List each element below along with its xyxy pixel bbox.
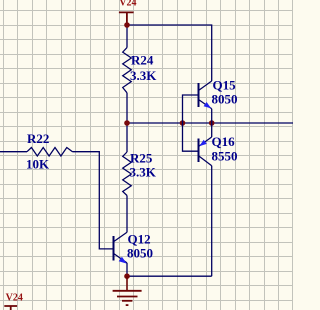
svg-text:V24: V24 bbox=[119, 0, 136, 9]
svg-text:Q12: Q12 bbox=[128, 231, 151, 246]
svg-text:Q16: Q16 bbox=[212, 134, 236, 149]
wire middle rail bbox=[127, 122, 293, 124]
wire R25 to Q12 collector bbox=[126, 196, 128, 233]
wire Q15 emitter down bbox=[211, 109, 213, 123]
svg-text:R24: R24 bbox=[131, 52, 154, 67]
junction top bbox=[124, 22, 130, 28]
wire Q16 emitter up bbox=[211, 123, 213, 137]
svg-text:V24: V24 bbox=[6, 293, 23, 304]
svg-text:10K: 10K bbox=[26, 156, 50, 171]
junction middle left bbox=[124, 120, 130, 126]
junction emitters bbox=[209, 120, 215, 126]
svg-text:8050: 8050 bbox=[212, 92, 238, 107]
power V24 bottom bbox=[4, 293, 23, 310]
junction base bus bbox=[180, 120, 186, 126]
wire R24 to R25 bbox=[126, 93, 128, 152]
resistor R25 bbox=[123, 150, 157, 195]
wire Q12 emitter to ground node bbox=[126, 263, 128, 276]
junction ground bbox=[124, 273, 130, 279]
power V24 top bbox=[119, 0, 137, 25]
transistor Q16 bbox=[199, 134, 238, 166]
wire V24 top to R24 and Q15 collector bbox=[127, 25, 212, 81]
svg-text:Q15: Q15 bbox=[213, 77, 237, 92]
svg-text:3.3K: 3.3K bbox=[130, 165, 157, 180]
svg-text:R25: R25 bbox=[130, 150, 153, 165]
wire R22 to Q12 base bbox=[73, 152, 114, 249]
ground bbox=[113, 276, 142, 305]
wire bottom rail bbox=[127, 275, 212, 277]
transistor Q15 bbox=[199, 77, 238, 109]
resistor R24 bbox=[123, 48, 158, 93]
svg-text:8050: 8050 bbox=[127, 245, 153, 260]
svg-text:R22: R22 bbox=[27, 131, 49, 146]
svg-text:3.3K: 3.3K bbox=[130, 68, 157, 83]
wire Q16 collector to bottom rail bbox=[211, 166, 213, 277]
transistor Q12 bbox=[114, 231, 154, 263]
svg-text:8550: 8550 bbox=[212, 148, 238, 163]
resistor R22 bbox=[0, 131, 73, 172]
wire base bus Q15 Q16 bbox=[183, 95, 199, 151]
